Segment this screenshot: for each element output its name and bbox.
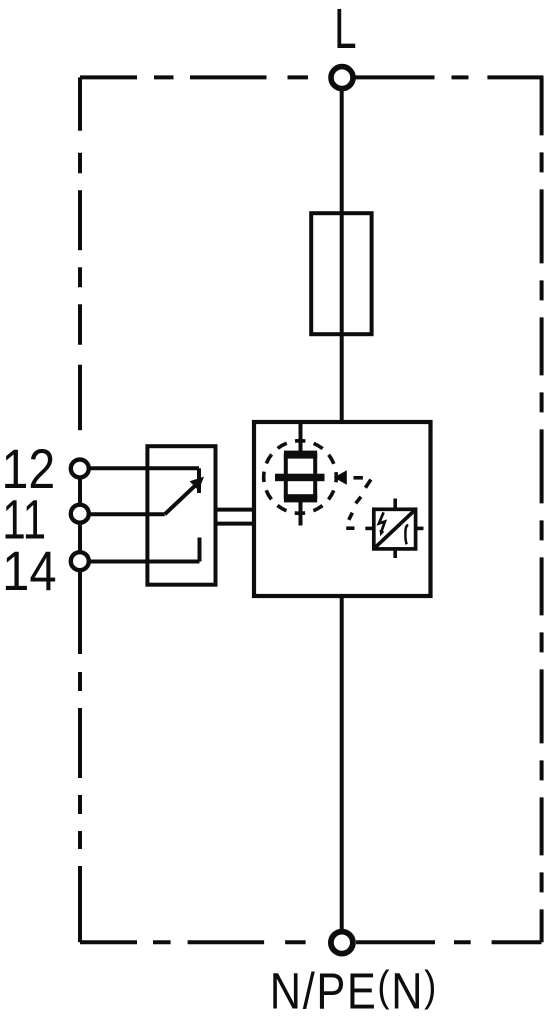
switch arm arrowhead (190, 477, 204, 491)
spark gap GDT: middle electrode bar (275, 474, 325, 482)
trigger unit square (374, 509, 416, 549)
svg-text:L: L (334, 0, 356, 61)
trigger dashed curve segment 2 (365, 480, 371, 488)
bottom border right of terminal N/PE(N) (356, 940, 542, 944)
left border below terminal 14 (78, 572, 82, 942)
left border solid joint terminal 12-11 (78, 477, 82, 505)
switch arm (movable contact from 11) (165, 485, 196, 515)
terminal N/PE(N) circle (331, 932, 353, 954)
enclosure boundary (dash-dot housing outline) (80, 77, 544, 942)
current wave curve in trigger unit (405, 525, 408, 544)
fuse F (disconnector) rectangle (311, 213, 371, 334)
trigger unit bottom tick (393, 549, 397, 558)
left border solid joint terminal 11-14 (78, 522, 82, 553)
trigger unit left tick (365, 527, 374, 531)
top border left of terminal L (80, 75, 328, 79)
trigger unit diagonal (375, 511, 414, 547)
encapsulation dashed circle around spark gap (264, 441, 337, 514)
stub wire terminal 12 to relay box (80, 466, 199, 470)
terminal 11 circle (71, 505, 89, 523)
trigger dashed curve segment 5 (346, 526, 354, 530)
bottom border left of terminal N/PE(N) (80, 940, 325, 944)
left border above terminal 12 (78, 77, 82, 457)
mechanical link lower line (216, 522, 255, 526)
spark gap GDT: bottom electrode bar (284, 494, 317, 502)
top border right of terminal L (356, 75, 544, 79)
terminal 12 circle (71, 460, 89, 478)
wire: terminal L down to fuse (340, 78, 344, 214)
stub wire terminal 11 to relay box (80, 512, 165, 516)
svg-text:N/PE(N): N/PE(N) (270, 963, 438, 1021)
wire: fuse down to SPD box (340, 334, 344, 422)
lightning arrowhead (380, 530, 385, 536)
spark gap GDT: body sides (286, 454, 315, 499)
trigger dashed curve segment 1 (354, 476, 363, 480)
right border (540, 77, 544, 942)
fixed contact 12 hook (vertical drop) (197, 468, 201, 493)
svg-text:14: 14 (2, 540, 56, 603)
terminal L circle (331, 67, 353, 89)
stub wire terminal 14 to relay box (80, 560, 200, 564)
mechanical link upper line (216, 508, 255, 512)
terminal 14 circle (71, 552, 89, 570)
trigger dashed curve segment 4 (349, 513, 353, 520)
wire through fuse (340, 213, 344, 334)
trigger dashed curve segment 3 (356, 497, 361, 504)
trigger arrow pointing at spark gap (334, 470, 347, 484)
trigger unit top tick (393, 499, 397, 510)
spark gap GDT: top electrode bar (284, 451, 317, 459)
wire: SPD box down to terminal N/PE(N) (340, 596, 344, 943)
changeover contact box (remote signalling switch) (147, 446, 215, 585)
trigger unit right tick (416, 527, 424, 531)
spark gap GDT: bottom lead (299, 502, 303, 526)
spark gap GDT: top lead (299, 424, 303, 451)
lightning impulse symbol in trigger unit (379, 512, 385, 532)
SPD main box (254, 422, 431, 596)
fixed contact 14 bracket (vertical up) (198, 538, 202, 562)
